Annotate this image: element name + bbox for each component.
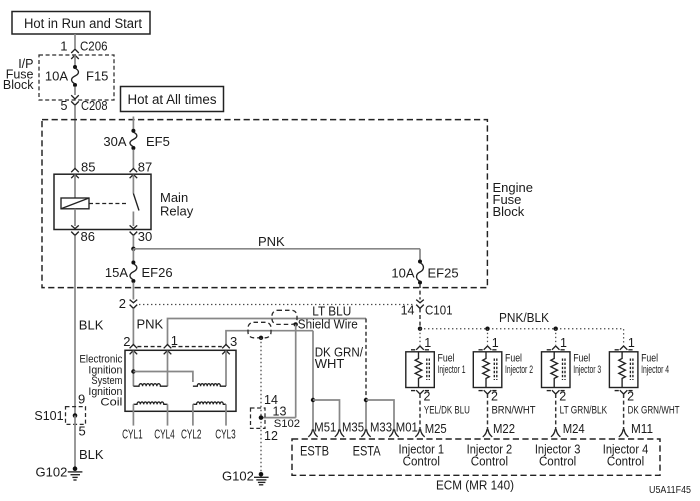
- wire from Hot in Run and Start to C206: [74, 34, 76, 49]
- svg-text:M11: M11: [631, 421, 653, 436]
- I/P fuse block dashed box: [39, 55, 114, 100]
- relay switch wire pin 87: [132, 175, 134, 194]
- fuel injector 3 box: [542, 352, 571, 388]
- svg-text:CYL4: CYL4: [154, 428, 175, 442]
- relay dashed actuation line: [89, 203, 128, 205]
- node G102 right: [259, 472, 264, 477]
- svg-text:10A: 10A: [45, 69, 68, 84]
- injector 4 pintle dashes: [630, 359, 633, 381]
- svg-text:30: 30: [138, 229, 152, 244]
- connector C101 pin 2 arrows: [130, 300, 138, 309]
- label Electronic Ignition System Ignition Coil: [79, 354, 122, 409]
- ECM pin flare M51: [308, 429, 317, 437]
- ECM dashed box: [292, 439, 660, 475]
- ECM pin flare M24: [551, 429, 560, 437]
- wire shield drain horizontal to S102: [261, 417, 296, 419]
- svg-text:PNK/BLK: PNK/BLK: [499, 310, 549, 325]
- label Fuel Injector 2: [505, 353, 533, 376]
- svg-text:2: 2: [491, 390, 498, 404]
- wire ESTB branch to M35: [313, 400, 340, 430]
- svg-text:M35: M35: [342, 420, 364, 435]
- wire PNK from C101-2 to coil pin 2: [132, 308, 134, 345]
- relay switch blade: [133, 194, 139, 211]
- coil internal wire to right primary: [133, 372, 193, 383]
- svg-text:5: 5: [79, 424, 86, 439]
- node S101: [73, 413, 78, 418]
- svg-text:M33: M33: [370, 420, 392, 435]
- coil pin 1 arrows: [164, 345, 172, 355]
- svg-text:PNK: PNK: [258, 234, 285, 249]
- injector 3 pin 1 arrows: [547, 346, 565, 350]
- wire drop to injector 3: [555, 329, 557, 345]
- svg-text:M25: M25: [425, 421, 447, 436]
- relay box U: Main Relay: [54, 174, 151, 229]
- svg-text:2: 2: [424, 390, 431, 404]
- relay coil symbol: [61, 198, 89, 209]
- wire PNK horizontal to EF25: [133, 248, 420, 250]
- coil pin 3 arrows: [222, 345, 230, 355]
- relay pin 87 connector arrows: [130, 168, 138, 178]
- svg-text:C101: C101: [425, 304, 453, 318]
- label I/P Fuse Block: [3, 57, 34, 92]
- svg-text:2: 2: [119, 296, 126, 311]
- coil left secondary winding: [133, 402, 167, 404]
- svg-text:Fuel: Fuel: [641, 353, 658, 365]
- svg-text:Injector 2: Injector 2: [505, 364, 533, 376]
- wire EF26 to C101 pin 2: [132, 283, 134, 300]
- injector 4 pin 2 arrows: [615, 390, 633, 394]
- svg-text:13: 13: [273, 405, 287, 419]
- connector C101 pin 14 arrows: [416, 300, 424, 309]
- svg-text:14: 14: [401, 304, 415, 318]
- connector C101 link dotted line: [139, 304, 414, 306]
- svg-text:Control: Control: [403, 454, 440, 468]
- connector C208 pin 5: [71, 95, 79, 105]
- svg-text:EF25: EF25: [428, 266, 459, 281]
- injector 1 pintle dashes: [427, 359, 430, 381]
- svg-text:Injector 1: Injector 1: [438, 364, 466, 376]
- relay pin 86 connector arrows: [71, 225, 79, 235]
- injector 2 pin 2 arrows: [479, 390, 497, 394]
- wire DK GRN/WHT from coil pin 3: [226, 331, 313, 345]
- coil internal junction node: [131, 369, 135, 373]
- svg-text:EF26: EF26: [142, 265, 173, 280]
- wire junction to EF26: [132, 249, 134, 262]
- svg-text:CYL2: CYL2: [181, 428, 202, 442]
- label Fuel Injector 1: [438, 353, 466, 376]
- svg-text:M01: M01: [396, 420, 418, 435]
- coil pin 1 internal wire: [167, 351, 169, 387]
- svg-text:Block: Block: [3, 78, 34, 92]
- wire LT BLU from coil pin 1: [168, 319, 367, 346]
- injector 3 coil resistor: [551, 352, 558, 387]
- svg-text:Relay: Relay: [160, 204, 194, 219]
- node shield wire junction: [294, 322, 298, 326]
- node PNK/BLK at injector 3: [554, 327, 558, 331]
- ECM pin flare M25: [415, 429, 424, 437]
- svg-text:9: 9: [78, 392, 85, 407]
- ground G102 right: [254, 477, 269, 485]
- wire pin 30 down to junction: [132, 235, 134, 248]
- wire from EF5 to relay pin 87: [132, 150, 134, 169]
- injector 3 pin 2 arrows: [547, 390, 565, 394]
- wire pin 86 down to S101: [74, 235, 76, 413]
- svg-text:12: 12: [264, 429, 278, 443]
- svg-text:S101: S101: [34, 409, 63, 423]
- ECM pin flare M22: [483, 429, 492, 437]
- svg-text:BRN/WHT: BRN/WHT: [492, 405, 536, 417]
- label 30A EF5: [103, 134, 169, 149]
- svg-text:1: 1: [492, 336, 499, 350]
- node PNK/BLK at injector 1: [418, 327, 422, 331]
- wire ESTA branch to M01: [366, 400, 394, 430]
- injector 1 pin 2 arrows: [411, 390, 429, 394]
- node ESTB junction: [311, 398, 315, 402]
- svg-text:1: 1: [560, 336, 567, 350]
- svg-text:DK GRN/WHT: DK GRN/WHT: [628, 405, 680, 417]
- coil right primary winding: [193, 384, 226, 387]
- injector 2 coil resistor: [483, 352, 490, 387]
- wire injector 1 to ECM dashed: [419, 394, 421, 430]
- svg-text:1: 1: [628, 336, 635, 350]
- svg-text:Control: Control: [607, 454, 644, 468]
- svg-text:3: 3: [230, 334, 237, 349]
- relay coil wire to pin 86: [74, 209, 76, 226]
- svg-text:YEL/DK BLU: YEL/DK BLU: [424, 405, 470, 417]
- engine fuse block dashed box: [42, 120, 487, 288]
- splice S102 dashed box: [251, 408, 266, 428]
- shield symbol upper dashed oval: [272, 310, 297, 324]
- label 14 C101: [401, 304, 453, 318]
- ignition coil box: [125, 350, 236, 411]
- wire CYL2: [192, 404, 194, 425]
- label 10A F15: [45, 69, 109, 84]
- wire drop to injector 1: [419, 329, 421, 345]
- wire from C208 to relay pin 85: [74, 105, 76, 168]
- injector 3 pintle dashes: [563, 359, 566, 381]
- svg-text:Injector 3: Injector 3: [573, 364, 601, 376]
- label Injector 3 Control: [535, 443, 581, 469]
- relay pin 85 connector arrows: [71, 168, 79, 178]
- svg-text:Control: Control: [539, 454, 576, 468]
- ECM pin flare M01: [389, 429, 398, 437]
- svg-text:87: 87: [138, 160, 152, 175]
- label Injector 2 Control: [467, 443, 513, 469]
- svg-text:M24: M24: [563, 421, 585, 436]
- relay pin 30 connector arrows: [130, 225, 138, 235]
- coil pin 2 internal wire: [132, 351, 134, 387]
- wire into fuse F15: [74, 55, 76, 66]
- connector C206 pin 1: [71, 49, 79, 59]
- ECM pin flare M11: [619, 429, 628, 437]
- svg-text:2: 2: [627, 390, 634, 404]
- svg-text:Fuel: Fuel: [438, 353, 455, 365]
- svg-text:Fuel: Fuel: [573, 353, 590, 365]
- wire PNK/BLK bus dotted: [420, 329, 624, 345]
- junction node PNK feed: [131, 247, 135, 251]
- wire PNK down to EF25: [419, 249, 421, 261]
- svg-text:2: 2: [559, 390, 566, 404]
- label 15A EF26: [105, 265, 173, 280]
- ground G102 left: [68, 472, 83, 480]
- svg-text:ESTA: ESTA: [353, 444, 381, 459]
- svg-text:Hot in Run and Start: Hot in Run and Start: [24, 16, 142, 31]
- wire from fuse to C208: [74, 87, 76, 96]
- svg-text:G102: G102: [222, 469, 254, 484]
- svg-text:86: 86: [81, 229, 95, 244]
- svg-text:2: 2: [123, 334, 130, 349]
- wire drop to injector 2: [487, 329, 489, 345]
- wire shield drain vertical: [295, 324, 297, 417]
- coil left primary winding: [133, 384, 167, 387]
- svg-text:15A: 15A: [105, 265, 128, 280]
- svg-text:Fuel: Fuel: [505, 353, 522, 365]
- fuse EF26 15A: [130, 261, 137, 284]
- node G102 left: [73, 466, 78, 471]
- svg-text:CYL1: CYL1: [122, 428, 143, 442]
- wire ESTA junction down to M33: [365, 400, 367, 430]
- coil connector dashed plane: [137, 346, 221, 348]
- coil pin 2 arrows: [130, 345, 138, 355]
- svg-text:1: 1: [424, 336, 431, 350]
- svg-text:10A: 10A: [391, 266, 414, 281]
- wire DK GRN/WHT vertical to ESTB: [312, 331, 314, 400]
- wire C101-14 to PNK/BLK bus: [419, 308, 421, 328]
- label DK GRN/WHT: [315, 345, 364, 372]
- wire BLK from S101 to G102: [74, 416, 76, 467]
- label Injector 4 Control: [603, 443, 649, 469]
- svg-text:M22: M22: [493, 421, 515, 436]
- svg-text:1: 1: [171, 333, 178, 348]
- svg-text:Coil: Coil: [100, 397, 122, 409]
- label 10A EF25: [391, 266, 458, 281]
- label Main Relay: [160, 190, 194, 219]
- svg-text:ESTB: ESTB: [300, 444, 329, 459]
- wire from Hot at All times to fuse EF5: [132, 117, 134, 131]
- fuel injector 4 box: [609, 352, 638, 388]
- node S102: [259, 415, 264, 420]
- svg-text:U5A11F45: U5A11F45: [649, 485, 691, 496]
- coil right secondary winding: [193, 402, 226, 404]
- injector 4 pin 1 arrows: [615, 346, 633, 350]
- svg-text:C206: C206: [80, 39, 108, 54]
- fuse F15 10A: [72, 65, 79, 87]
- svg-text:30A: 30A: [103, 134, 126, 149]
- injector 4 coil resistor: [619, 352, 626, 387]
- fuel injector 2 box: [473, 352, 502, 388]
- svg-text:G102: G102: [36, 465, 68, 480]
- svg-text:Hot at All times: Hot at All times: [128, 92, 217, 107]
- svg-text:F15: F15: [86, 69, 108, 84]
- coil pin 3 internal wire: [225, 351, 227, 387]
- svg-text:PNK: PNK: [137, 317, 164, 332]
- svg-text:EF5: EF5: [146, 134, 170, 149]
- wire CYL1: [132, 404, 134, 425]
- relay coil wire pin 85: [74, 175, 76, 198]
- power label box: Hot in Run and Start: [12, 12, 150, 35]
- wire LT BLU dashed vertical to ESTA: [365, 319, 367, 401]
- shield symbol lower dashed oval: [248, 322, 271, 338]
- svg-text:85: 85: [81, 160, 95, 175]
- fuel injector 1 box: [406, 352, 435, 388]
- svg-text:BLK: BLK: [79, 318, 104, 333]
- injector 1 coil resistor: [415, 352, 422, 387]
- ECM pin flare M33: [361, 429, 370, 437]
- splice S101 dashed box: [66, 407, 86, 425]
- svg-text:5: 5: [61, 99, 68, 113]
- wire ESTB junction down to M51: [312, 400, 314, 430]
- svg-text:CYL3: CYL3: [215, 428, 236, 442]
- wire CYL4: [167, 404, 169, 425]
- node lower shield junction: [259, 336, 263, 340]
- label Fuel Injector 3: [573, 353, 601, 376]
- label 5 C208: [61, 99, 108, 113]
- power label box: Hot at All times: [121, 87, 224, 112]
- fuse EF25 10A: [417, 260, 424, 285]
- svg-text:Injector 4: Injector 4: [641, 364, 669, 376]
- svg-text:Block: Block: [493, 204, 525, 219]
- label Fuel Injector 4: [641, 353, 669, 376]
- label Engine Fuse Block: [493, 180, 533, 219]
- svg-text:Shield Wire: Shield Wire: [298, 317, 358, 332]
- svg-text:1: 1: [60, 39, 67, 54]
- label Injector 1 Control: [399, 443, 445, 469]
- fuse EF5 30A: [130, 129, 137, 150]
- wire injector 3 to ECM dashed: [555, 394, 557, 430]
- svg-text:BLK: BLK: [79, 447, 104, 462]
- svg-text:C208: C208: [81, 99, 108, 113]
- injector 2 pin 1 arrows: [479, 346, 497, 350]
- wire EF25 to C101 pin 14 dashed: [419, 284, 421, 300]
- wire dotted shield drain to S102: [260, 338, 262, 472]
- svg-text:Control: Control: [471, 454, 508, 468]
- relay switch wire to pin 30: [132, 212, 134, 227]
- svg-text:ECM (MR 140): ECM (MR 140): [436, 479, 514, 493]
- node PNK/BLK at injector 2: [485, 327, 489, 331]
- node ESTA junction: [364, 398, 368, 402]
- label 1 C206: [60, 39, 107, 54]
- injector 2 pintle dashes: [494, 359, 497, 381]
- svg-text:M51: M51: [314, 420, 336, 435]
- wire injector 4 to ECM dashed: [623, 394, 625, 430]
- wire CYL3: [225, 404, 227, 425]
- svg-text:WHT: WHT: [315, 356, 345, 371]
- ECM pin flare M35: [335, 429, 344, 437]
- svg-text:LT GRN/BLK: LT GRN/BLK: [560, 405, 608, 417]
- wire injector 2 to ECM dashed: [487, 394, 489, 430]
- injector 1 pin 1 arrows: [411, 346, 429, 350]
